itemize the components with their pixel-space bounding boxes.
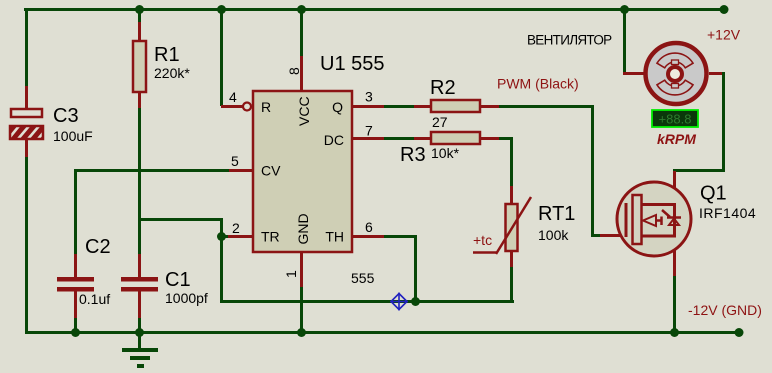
svg-text:3: 3: [365, 89, 373, 105]
wire: R1 top lead column: [138, 11, 141, 22]
junction bottom rail at C2: [71, 328, 80, 337]
wire: RT1 bottom lead to threshold rail: [510, 251, 513, 267]
wire: TR pin2 stub: [222, 235, 228, 238]
svg-text:R: R: [261, 99, 271, 115]
internal vertical rail: [673, 204, 676, 236]
svg-text:7: 7: [365, 123, 373, 139]
thermistor RT1: [473, 197, 575, 254]
wire: motor right lead: [709, 72, 725, 75]
wire: CV pin5 horizontal: [229, 169, 254, 172]
junction on top rail at motor column: [620, 5, 629, 14]
gate bar: [625, 203, 628, 237]
resistor R3: [400, 132, 480, 166]
wire: Q pin3 to R2: [352, 105, 384, 108]
svg-text:PWM (Black): PWM (Black): [497, 76, 579, 92]
junction on top rail at R1: [135, 5, 144, 14]
op-amp U1 555 timer body: [253, 53, 385, 286]
wire: gate vertical column: [591, 105, 594, 237]
svg-text:ВЕНТИЛЯТОР: ВЕНТИЛЯТОР: [527, 33, 612, 48]
wire: +12V top rail: [24, 8, 725, 11]
wire: TR vertical down to threshold rail: [220, 218, 223, 303]
svg-text:100k: 100k: [538, 227, 569, 243]
svg-text:IRF1404: IRF1404: [699, 205, 756, 221]
wire: R1 bottom to C1 column: [138, 92, 141, 108]
svg-text:U1 555: U1 555: [320, 53, 385, 75]
junction bottom rail at pin1: [297, 328, 306, 337]
junction bottom rail at Q1 source: [670, 328, 679, 337]
wire: VCC pin8 column: [300, 11, 303, 57]
wire: pin4 reset column from top rail: [220, 11, 223, 106]
channel bar: [633, 195, 642, 244]
junction on top rail at VCC column: [297, 5, 306, 14]
svg-text:R3: R3: [400, 144, 426, 166]
transistor Q1 IRF1404: [617, 182, 756, 256]
svg-text:TH: TH: [325, 229, 344, 245]
resistor R2: [430, 77, 480, 130]
svg-text:DC: DC: [324, 132, 344, 148]
svg-text:1: 1: [283, 270, 299, 278]
node +12V terminal dot: [720, 5, 729, 14]
svg-text:CV: CV: [261, 163, 281, 179]
junction at TR pin2: [217, 232, 226, 241]
substrate arrow: [643, 215, 656, 226]
body diode: [662, 210, 670, 217]
svg-text:0.1uf: 0.1uf: [79, 291, 110, 307]
capacitor C3 (electrolytic): [10, 86, 93, 157]
junction bottom rail at C1/ground: [135, 328, 144, 337]
wire: gate stub into Q1: [591, 234, 601, 237]
svg-text:+88.8: +88.8: [659, 112, 692, 127]
svg-text:2: 2: [232, 220, 240, 236]
svg-text:R1: R1: [154, 44, 180, 66]
junction threshold rail at TH column: [411, 297, 420, 306]
svg-text:6: 6: [365, 219, 373, 235]
svg-text:220k*: 220k*: [154, 65, 190, 81]
wire: threshold horizontal rail: [220, 300, 514, 303]
wire: GND pin1 column: [300, 252, 303, 287]
wire: ground bottom rail: [25, 331, 740, 334]
wire: Q1 source lead to ground rail: [673, 236, 676, 276]
svg-text:VCC: VCC: [296, 96, 312, 126]
wire: Q1 drain lead: [673, 171, 676, 205]
svg-text:C2: C2: [85, 236, 111, 258]
wire: C2 bottom lead: [74, 291, 77, 318]
wire: motor left column from top rail: [623, 11, 626, 73]
svg-text:+tc: +tc: [473, 232, 492, 248]
origin marker (blue crosshair): [390, 293, 408, 311]
svg-text:4: 4: [229, 89, 237, 105]
pin 4 inversion bubble: [243, 103, 251, 111]
svg-text:10k*: 10k*: [431, 145, 460, 161]
svg-text:Q: Q: [332, 99, 343, 115]
wire: RT1 top lead: [510, 186, 513, 204]
wire: R3 right to RT1 column: [480, 137, 499, 140]
node -12V terminal dot: [735, 328, 744, 337]
svg-text:1000pf: 1000pf: [165, 290, 208, 306]
junction on top rail at pin4 column: [217, 5, 226, 14]
svg-text:RT1: RT1: [538, 203, 575, 225]
wire: motor right vertical down: [722, 72, 725, 172]
wire: TH vertical to threshold rail: [414, 235, 417, 303]
svg-text:555: 555: [351, 270, 375, 286]
svg-text:+12V: +12V: [707, 27, 741, 43]
svg-text:5: 5: [231, 153, 239, 169]
svg-text:C1: C1: [165, 269, 191, 291]
wire: C2 top column: [74, 169, 77, 254]
wire: pin4 red stub to bubble: [221, 105, 243, 108]
wire: left vertical rail lower: [25, 157, 28, 334]
wire: left vertical rail upper (C3 branch): [25, 8, 28, 88]
svg-text:-12V (GND): -12V (GND): [688, 302, 762, 318]
svg-text:27: 27: [432, 114, 448, 130]
wire: jog to Q1 drain: [673, 169, 725, 172]
resistor R1: [133, 41, 190, 92]
wire: TH pin6 stub and run: [352, 235, 384, 238]
source tap: [641, 235, 676, 238]
svg-text:R2: R2: [430, 77, 456, 99]
svg-text:100uF: 100uF: [53, 128, 93, 144]
wire: node R1/C1 to TR corner: [138, 218, 222, 221]
motor (fan): [646, 43, 707, 104]
wire: R2 right to gate column: [480, 105, 499, 108]
wire: C1 bottom lead: [138, 291, 141, 318]
svg-text:kRPM: kRPM: [657, 131, 696, 147]
drain tap: [641, 203, 676, 206]
rpm display: [652, 110, 698, 147]
capacitor C2: [57, 236, 111, 307]
wire: DC pin7 to R3: [352, 137, 384, 140]
svg-text:C3: C3: [53, 105, 79, 127]
svg-text:TR: TR: [261, 229, 280, 245]
ground symbol: [122, 334, 158, 368]
svg-text:8: 8: [286, 67, 302, 75]
svg-text:GND: GND: [295, 213, 311, 244]
capacitor C1: [121, 269, 208, 306]
svg-text:Q1: Q1: [700, 183, 727, 205]
